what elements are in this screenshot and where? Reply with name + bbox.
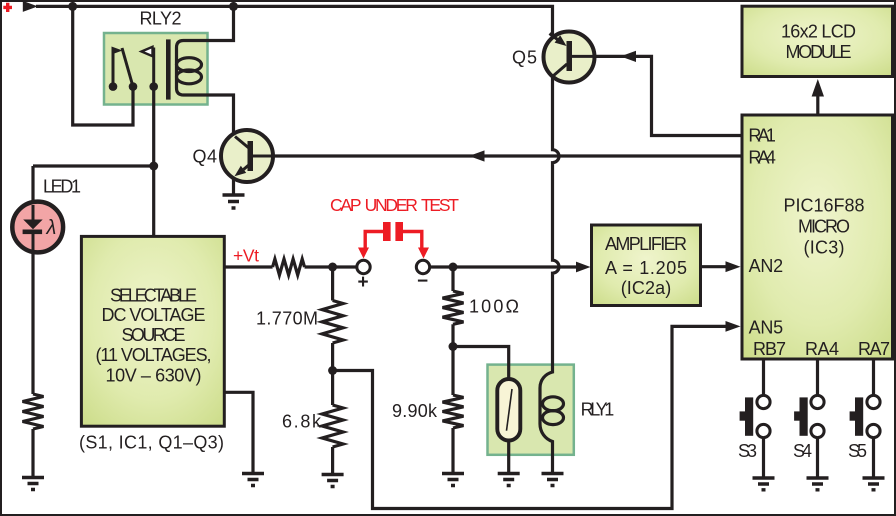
svg-text:S4: S4 xyxy=(793,441,812,461)
svg-text:S3: S3 xyxy=(738,441,757,461)
svg-text:RLY1: RLY1 xyxy=(581,400,615,420)
svg-text:AN2: AN2 xyxy=(749,256,784,276)
svg-text:(IC2a): (IC2a) xyxy=(621,278,672,298)
svg-text:S5: S5 xyxy=(848,441,867,461)
svg-text:SOURCE: SOURCE xyxy=(122,325,186,345)
svg-text:(11 VOLTAGES,: (11 VOLTAGES, xyxy=(96,345,212,365)
svg-text:Q5: Q5 xyxy=(512,48,537,68)
svg-text:RA7: RA7 xyxy=(858,339,890,359)
svg-text:AMPLIFIER: AMPLIFIER xyxy=(605,234,687,254)
svg-text:SELECTABLE: SELECTABLE xyxy=(110,286,197,306)
svg-text:−: − xyxy=(417,271,428,292)
svg-text:RLY2: RLY2 xyxy=(140,9,182,29)
svg-text:RA4: RA4 xyxy=(805,339,839,359)
svg-text:DC VOLTAGE: DC VOLTAGE xyxy=(102,305,206,325)
svg-text:λ: λ xyxy=(46,217,57,239)
svg-text:(S1, IC1, Q1–Q3): (S1, IC1, Q1–Q3) xyxy=(79,433,224,453)
svg-text:RA4: RA4 xyxy=(748,147,776,167)
svg-text:RB7: RB7 xyxy=(753,339,786,359)
svg-text:+Vt: +Vt xyxy=(233,246,259,266)
svg-text:9.90k: 9.90k xyxy=(392,401,438,421)
svg-text:LED1: LED1 xyxy=(43,177,81,197)
svg-text:CAP UNDER TEST: CAP UNDER TEST xyxy=(330,195,459,215)
svg-text:AN5: AN5 xyxy=(749,318,784,338)
svg-text:PIC16F88: PIC16F88 xyxy=(784,196,865,216)
svg-text:1.770M: 1.770M xyxy=(256,309,318,329)
svg-text:RA1: RA1 xyxy=(748,126,776,146)
svg-text:10V – 630V): 10V – 630V) xyxy=(106,365,202,385)
svg-text:+: + xyxy=(358,272,369,293)
svg-text:16x2 LCD: 16x2 LCD xyxy=(781,22,856,42)
svg-text:Q4: Q4 xyxy=(193,147,218,167)
svg-text:MICRO: MICRO xyxy=(798,217,850,237)
svg-text:6.8k: 6.8k xyxy=(282,412,322,432)
svg-text:A = 1.205: A = 1.205 xyxy=(605,258,687,278)
svg-text:100Ω: 100Ω xyxy=(469,297,519,317)
svg-text:MODULE: MODULE xyxy=(786,42,852,62)
svg-text:(IC3): (IC3) xyxy=(804,238,845,258)
